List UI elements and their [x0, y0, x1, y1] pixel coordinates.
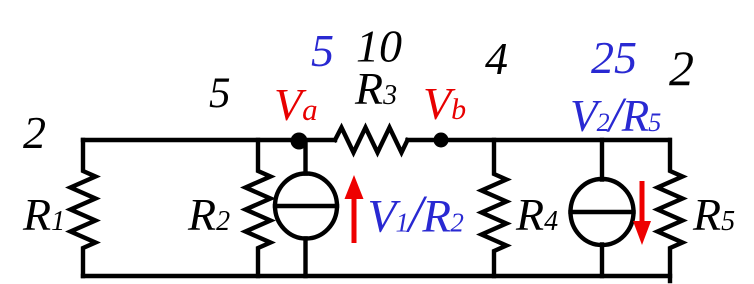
- resistor R5: [658, 140, 683, 281]
- svg-text:R1: R1: [22, 189, 65, 240]
- svg-text:Va: Va: [274, 79, 318, 130]
- svg-text:2: 2: [23, 107, 46, 158]
- current source U2 leads: [600, 140, 604, 276]
- current source U2 circle: [571, 179, 634, 245]
- svg-text:V1/R2: V1/R2: [368, 186, 464, 244]
- svg-text:25: 25: [591, 32, 637, 83]
- svg-text:R2: R2: [187, 189, 230, 240]
- svg-text:5: 5: [311, 25, 334, 76]
- wire top right: [408, 138, 670, 142]
- wire top left (node Va left segment): [83, 138, 335, 142]
- resistor R2: [246, 140, 271, 276]
- resistor R4: [482, 140, 507, 276]
- resistor R1: [71, 140, 96, 276]
- current source U1 circle: [275, 174, 337, 239]
- arrow down (V2/R5 current direction): [633, 181, 651, 245]
- current source U1 chord: [275, 204, 337, 208]
- resistor R3: [335, 128, 408, 153]
- node Va dot: [291, 133, 308, 150]
- svg-text:4: 4: [485, 33, 508, 84]
- svg-text:2: 2: [669, 40, 694, 96]
- svg-text:R4: R4: [515, 189, 558, 240]
- svg-text:V2/R5: V2/R5: [570, 86, 661, 142]
- wire bottom: [83, 274, 670, 278]
- svg-text:R5: R5: [692, 189, 735, 240]
- current source U1 leads: [303, 141, 307, 276]
- current source U2 chord: [571, 210, 634, 214]
- svg-text:Vb: Vb: [423, 78, 466, 129]
- arrow up (V1/R2 current direction): [345, 175, 364, 243]
- node Vb dot: [434, 133, 449, 148]
- svg-text:5: 5: [209, 70, 231, 117]
